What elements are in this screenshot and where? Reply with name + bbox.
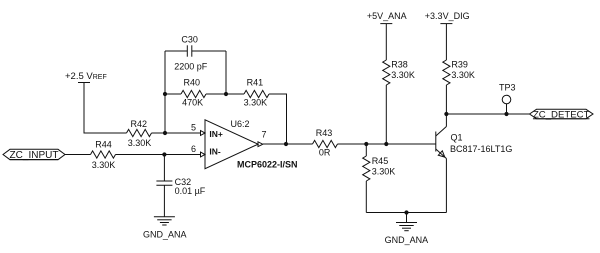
wire C30 right vertical (225, 51, 227, 94)
power +2.5V VREF (65, 71, 107, 83)
svg-text:3.30K: 3.30K (92, 160, 116, 170)
svg-text:GND_ANA: GND_ANA (385, 235, 429, 245)
wire +3.3V to R39 (445, 24, 447, 60)
wire bottom rail (366, 212, 446, 214)
wire R38 to base rail (385, 85, 387, 144)
node R40 right / C30 right (224, 92, 228, 96)
svg-text:ZC_DETECT: ZC_DETECT (533, 109, 590, 120)
node output junction (284, 142, 288, 146)
svg-text:MCP6022-I/SN: MCP6022-I/SN (237, 159, 298, 169)
power +3.3V_DIG (425, 11, 470, 23)
wire R39 to collector node (445, 85, 447, 114)
resistor R45 (363, 144, 396, 213)
resistor R39 (443, 60, 475, 85)
svg-text:R42: R42 (131, 119, 148, 129)
test point TP3 (499, 82, 516, 114)
resistor R42 (127, 119, 152, 148)
node R38 tap (384, 142, 388, 146)
svg-text:3.30K: 3.30K (128, 138, 152, 148)
svg-text:0.01 µF: 0.01 µF (175, 186, 206, 196)
svg-text:GND_ANA: GND_ANA (143, 229, 187, 239)
svg-text:7: 7 (261, 129, 266, 139)
svg-text:470K: 470K (182, 97, 203, 107)
svg-text:BC817-16LT1G: BC817-16LT1G (450, 144, 512, 154)
wire R43 to base (338, 143, 436, 145)
svg-text:Q1: Q1 (451, 133, 463, 143)
svg-text:3.30K: 3.30K (451, 70, 475, 80)
svg-text:R40: R40 (184, 78, 201, 88)
svg-text:ZC_INPUT: ZC_INPUT (10, 150, 59, 161)
capacitor C32 (156, 155, 205, 217)
svg-text:6: 6 (191, 144, 196, 154)
svg-text:R39: R39 (451, 60, 468, 70)
node C32 tap (162, 152, 166, 156)
svg-text:+5V_ANA: +5V_ANA (367, 11, 407, 21)
wire feedback vertical (164, 51, 166, 133)
svg-text:+3.3V_DIG: +3.3V_DIG (425, 11, 470, 21)
wire R42 to IN+ (152, 132, 201, 134)
svg-text:R45: R45 (372, 156, 389, 166)
node TP3 tap (504, 112, 508, 116)
node feedback junction (163, 131, 167, 135)
svg-text:2200 pF: 2200 pF (174, 61, 208, 71)
svg-text:+2.5 VREF: +2.5 VREF (65, 71, 107, 82)
wire op-amp output (263, 143, 313, 145)
svg-text:U6:2: U6:2 (231, 119, 250, 129)
resistor R41 (244, 78, 269, 108)
svg-text:3.30K: 3.30K (372, 166, 396, 176)
transistor Q1 (436, 114, 513, 213)
node ground tap (404, 210, 408, 214)
node collector junction (444, 112, 448, 116)
resistor R38 (383, 60, 415, 85)
resistor R43 (313, 128, 338, 157)
node R45 tap (364, 142, 368, 146)
power +5V_ANA (367, 11, 407, 23)
node R40 left (163, 92, 167, 96)
ZC_DETECT port tag (530, 109, 594, 120)
wire R41 to output node (269, 94, 287, 144)
svg-text:TP3: TP3 (499, 82, 516, 92)
svg-text:R41: R41 (247, 78, 264, 88)
svg-text:IN-: IN- (209, 146, 221, 156)
svg-text:0R: 0R (319, 147, 331, 157)
svg-text:3.30K: 3.30K (391, 70, 415, 80)
svg-text:5: 5 (191, 123, 196, 133)
ground GND_ANA (C32) (143, 217, 187, 240)
svg-text:3.30K: 3.30K (244, 97, 268, 107)
svg-text:R43: R43 (316, 128, 333, 138)
wire R44 to IN- (116, 154, 201, 156)
wire tag to R44 (65, 154, 91, 156)
svg-text:IN+: IN+ (209, 129, 223, 139)
resistor R44 (91, 139, 116, 170)
resistor R40 (181, 78, 206, 108)
ground GND_ANA (bottom) (385, 213, 429, 246)
svg-text:C30: C30 (181, 34, 198, 44)
ZC_INPUT port tag (3, 149, 65, 161)
op-amp U6:2 (191, 119, 298, 170)
svg-text:R38: R38 (391, 60, 408, 70)
wire detect rail (446, 113, 529, 115)
wire +5V to R38 (385, 24, 387, 60)
wire R40 to R41 (206, 93, 244, 95)
wire to R40 (165, 93, 181, 95)
capacitor C30 (165, 34, 226, 71)
svg-text:R44: R44 (95, 139, 112, 149)
wire vref vertical (84, 83, 127, 134)
